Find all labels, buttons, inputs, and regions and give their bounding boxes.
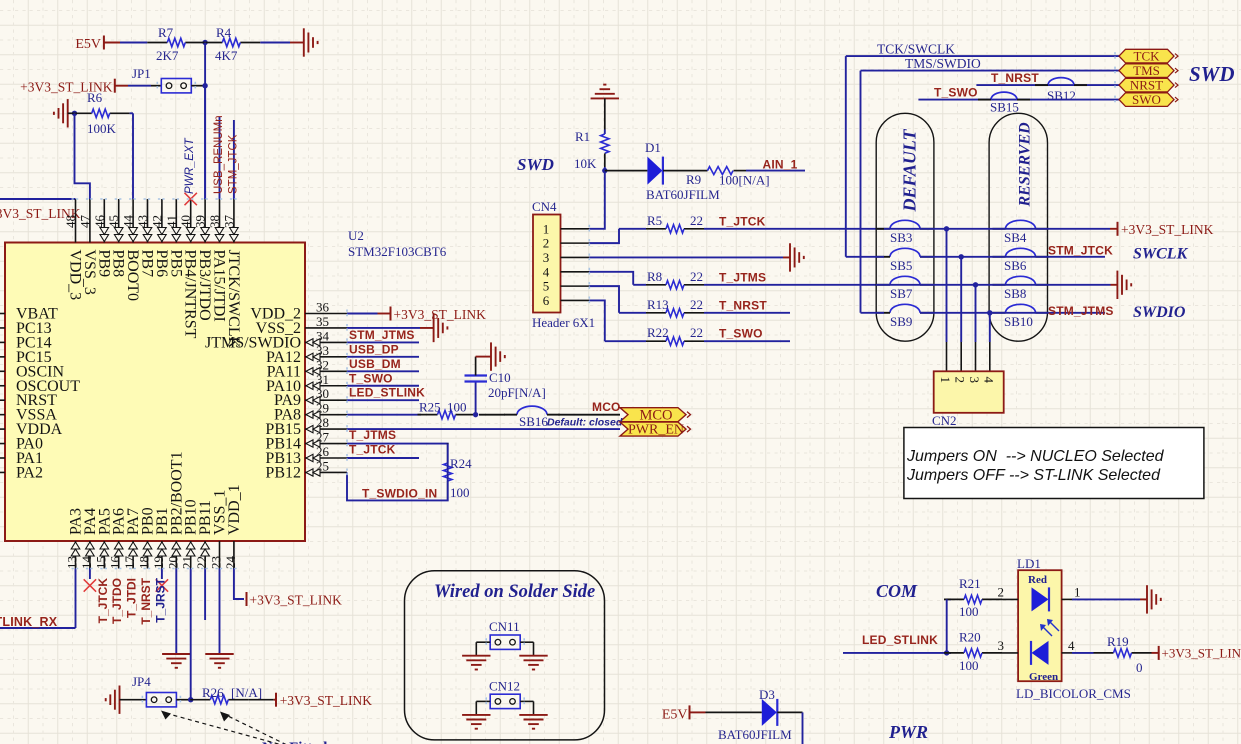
svg-text:PA2: PA2: [16, 464, 43, 481]
svg-text:22: 22: [194, 556, 209, 569]
svg-text:CN12: CN12: [489, 678, 520, 693]
svg-text:100: 100: [447, 400, 467, 415]
svg-text:T_NRST: T_NRST: [719, 298, 767, 312]
svg-text:SWD: SWD: [517, 155, 554, 174]
svg-text:R5: R5: [647, 213, 662, 228]
svg-text:40: 40: [178, 215, 193, 228]
svg-text:E5V: E5V: [75, 37, 101, 52]
svg-text:STM_JTMS: STM_JTMS: [1048, 304, 1114, 318]
svg-text:Wired on Solder Side: Wired on Solder Side: [434, 582, 595, 602]
svg-text:RESERVED: RESERVED: [1017, 122, 1034, 208]
svg-text:LED_STLINK: LED_STLINK: [862, 633, 938, 647]
svg-text:22: 22: [690, 325, 703, 340]
svg-text:15: 15: [93, 556, 108, 569]
svg-text:23: 23: [209, 556, 224, 569]
svg-text:USB_DM: USB_DM: [349, 357, 401, 371]
svg-text:STM_JTMS: STM_JTMS: [349, 328, 415, 342]
svg-text:Default: closed: Default: closed: [547, 417, 623, 429]
svg-text:10K: 10K: [574, 156, 597, 171]
svg-text:R25: R25: [419, 400, 441, 415]
svg-text:2: 2: [543, 236, 550, 251]
svg-text:STM32F103CBT6: STM32F103CBT6: [348, 244, 447, 259]
svg-text:VDD_1: VDD_1: [226, 484, 243, 535]
svg-text:CN4: CN4: [532, 199, 557, 214]
svg-text:38: 38: [207, 215, 222, 228]
svg-text:37: 37: [221, 215, 236, 229]
svg-text:6: 6: [543, 293, 550, 308]
svg-text:Jumpers OFF --> ST-LINK Select: Jumpers OFF --> ST-LINK Selected: [906, 467, 1161, 484]
svg-text:SB8: SB8: [1004, 286, 1026, 301]
svg-text:D1: D1: [645, 140, 661, 155]
svg-text:C10: C10: [489, 370, 511, 385]
svg-text:SWCLK: SWCLK: [1133, 245, 1189, 262]
svg-text:CN11: CN11: [489, 619, 520, 634]
svg-text:SB15: SB15: [990, 100, 1019, 115]
svg-text:48: 48: [63, 215, 78, 228]
svg-text:+3V3_ST_LINK: +3V3_ST_LINK: [1162, 645, 1241, 660]
svg-text:TMS/SWDIO: TMS/SWDIO: [905, 56, 981, 71]
svg-text:2K7: 2K7: [156, 48, 179, 63]
svg-text:DEFAULT: DEFAULT: [900, 128, 920, 212]
svg-text:3: 3: [998, 638, 1005, 653]
svg-text:R6: R6: [87, 90, 103, 105]
svg-text:+3V3_ST_LINK: +3V3_ST_LINK: [250, 593, 343, 608]
svg-text:46: 46: [92, 215, 107, 229]
svg-text:R22: R22: [647, 325, 669, 340]
svg-text:44: 44: [121, 215, 136, 229]
svg-text:42: 42: [149, 215, 164, 228]
svg-text:R13: R13: [647, 297, 669, 312]
svg-text:SWDIO: SWDIO: [1133, 304, 1186, 321]
svg-text:Header 6X1: Header 6X1: [532, 315, 595, 330]
svg-text:T_JTCK: T_JTCK: [719, 214, 766, 228]
svg-text:R21: R21: [959, 576, 981, 591]
svg-text:T_NRST: T_NRST: [991, 71, 1039, 85]
svg-text:+3V3_ST_LINK: +3V3_ST_LINK: [280, 693, 373, 708]
svg-text:SB3: SB3: [890, 230, 912, 245]
svg-text:22: 22: [690, 213, 703, 228]
svg-text:T_JRST: T_JRST: [153, 577, 167, 622]
svg-text:100K: 100K: [87, 121, 117, 136]
svg-text:T_SWO: T_SWO: [349, 371, 393, 385]
svg-text:T_SWO: T_SWO: [719, 327, 763, 341]
svg-text:AIN_1: AIN_1: [763, 158, 798, 172]
svg-text:SB12: SB12: [1047, 88, 1076, 103]
svg-text:17: 17: [122, 556, 137, 570]
svg-text:3: 3: [967, 377, 982, 384]
svg-text:MCO: MCO: [639, 407, 672, 423]
svg-text:100: 100: [959, 658, 979, 673]
svg-text:TMS: TMS: [1133, 63, 1160, 78]
svg-text:22: 22: [690, 297, 703, 312]
svg-text:4K7: 4K7: [215, 48, 238, 63]
svg-text:47: 47: [77, 215, 92, 229]
svg-text:TCK/SWCLK: TCK/SWCLK: [877, 42, 955, 57]
svg-text:20: 20: [165, 556, 180, 569]
svg-text:5: 5: [543, 279, 550, 294]
svg-text:16: 16: [108, 556, 123, 570]
svg-text:0: 0: [1136, 660, 1143, 675]
svg-text:JP4: JP4: [132, 674, 151, 689]
svg-text:T_JTCK: T_JTCK: [96, 578, 110, 624]
svg-text:LED_STLINK: LED_STLINK: [349, 386, 425, 400]
svg-text:T_SWO: T_SWO: [934, 86, 978, 100]
svg-text:TCK: TCK: [1134, 49, 1161, 64]
svg-text:T_JTMS: T_JTMS: [719, 270, 766, 284]
svg-text:COM: COM: [876, 581, 918, 601]
svg-text:18: 18: [137, 556, 152, 569]
svg-text:LD_BICOLOR_CMS: LD_BICOLOR_CMS: [1016, 686, 1131, 701]
svg-text:21: 21: [180, 556, 195, 569]
svg-text:[N/A]: [N/A]: [231, 685, 262, 700]
svg-text:13: 13: [65, 556, 80, 569]
svg-text:T_JTCK: T_JTCK: [349, 443, 396, 457]
svg-text:CN2: CN2: [932, 413, 957, 428]
svg-text:SWD: SWD: [1189, 62, 1235, 86]
svg-text:22: 22: [690, 269, 703, 284]
svg-text:1: 1: [543, 221, 550, 236]
svg-text:SB9: SB9: [890, 314, 912, 329]
svg-text:35: 35: [316, 314, 329, 329]
svg-text:R4: R4: [216, 25, 232, 40]
svg-text:MCO: MCO: [592, 400, 621, 414]
svg-text:24: 24: [223, 556, 238, 570]
svg-text:45: 45: [106, 215, 121, 228]
svg-text:+3V3_ST_LINK: +3V3_ST_LINK: [394, 307, 487, 322]
svg-text:36: 36: [316, 300, 330, 315]
svg-text:R8: R8: [647, 269, 662, 284]
svg-text:43: 43: [135, 215, 150, 228]
svg-text:STM_JTCK: STM_JTCK: [1048, 243, 1113, 257]
svg-text:3: 3: [543, 250, 550, 265]
svg-text:SB10: SB10: [1004, 314, 1033, 329]
svg-text:U2: U2: [348, 228, 364, 243]
svg-text:100: 100: [450, 485, 470, 500]
svg-text:T_JTDO: T_JTDO: [110, 578, 124, 624]
svg-text:100: 100: [959, 604, 979, 619]
svg-text:Jumpers ON --> NUCLEO Selecte: Jumpers ON --> NUCLEO Selected: [906, 448, 1165, 465]
svg-text:39: 39: [193, 215, 208, 228]
svg-text:4: 4: [543, 264, 550, 279]
svg-text:R24: R24: [450, 456, 472, 471]
svg-text:SB6: SB6: [1004, 258, 1027, 273]
svg-text:PWR: PWR: [888, 722, 928, 742]
svg-text:PWR_EN: PWR_EN: [628, 423, 684, 438]
svg-text:1: 1: [938, 377, 953, 384]
svg-text:R20: R20: [959, 630, 981, 645]
svg-text:PWR_EXT: PWR_EXT: [184, 137, 196, 194]
svg-text:41: 41: [164, 215, 179, 228]
svg-text:SB16: SB16: [519, 414, 548, 429]
svg-text:SB7: SB7: [890, 286, 913, 301]
svg-text:SB5: SB5: [890, 258, 912, 273]
svg-text:R26: R26: [202, 685, 224, 700]
svg-text:USB_RENUMn: USB_RENUMn: [213, 115, 225, 194]
svg-text:2: 2: [998, 585, 1005, 600]
svg-text:E5V: E5V: [662, 708, 688, 723]
svg-text:STM_JTCK: STM_JTCK: [227, 134, 239, 194]
svg-text:BAT60JFILM: BAT60JFILM: [646, 187, 720, 202]
svg-text:R9: R9: [686, 172, 701, 187]
svg-text:4: 4: [981, 377, 996, 384]
svg-text:PB12: PB12: [265, 464, 301, 481]
svg-text:100[N/A]: 100[N/A]: [719, 173, 770, 188]
svg-text:4: 4: [1068, 638, 1075, 653]
svg-text:SB4: SB4: [1004, 230, 1027, 245]
svg-text:SWO: SWO: [1132, 92, 1161, 107]
svg-text:1: 1: [1074, 585, 1081, 600]
svg-text:D3: D3: [759, 687, 775, 702]
svg-text:19: 19: [151, 556, 166, 569]
svg-text:20pF[N/A]: 20pF[N/A]: [488, 385, 546, 400]
svg-text:JP1: JP1: [132, 66, 151, 81]
svg-text:Green: Green: [1029, 671, 1058, 683]
svg-text:LD1: LD1: [1017, 556, 1041, 571]
svg-text:+3V3_ST_LINK: +3V3_ST_LINK: [1121, 222, 1214, 237]
svg-text:Not Fitted: Not Fitted: [262, 740, 328, 744]
svg-text:T_JTMS: T_JTMS: [349, 428, 396, 442]
svg-text:T_JTDI: T_JTDI: [125, 578, 139, 618]
svg-text:BAT60JFILM: BAT60JFILM: [718, 727, 792, 742]
svg-text:USB_DP: USB_DP: [349, 342, 399, 356]
svg-text:R1: R1: [575, 129, 590, 144]
svg-text:14: 14: [79, 556, 94, 570]
svg-text:R19: R19: [1107, 634, 1129, 649]
svg-text:NRST: NRST: [1130, 78, 1163, 93]
svg-text:STLINK_RX: STLINK_RX: [0, 615, 58, 629]
svg-text:Red: Red: [1028, 574, 1047, 586]
svg-text:T_NRST: T_NRST: [139, 577, 153, 624]
svg-text:R7: R7: [158, 25, 174, 40]
svg-text:2: 2: [953, 377, 968, 384]
svg-text:T_SWDIO_IN: T_SWDIO_IN: [362, 487, 437, 501]
